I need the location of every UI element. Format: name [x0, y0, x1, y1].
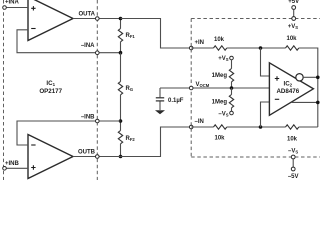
- op-amp IC2 AD8476: [269, 63, 313, 116]
- junction -IN stub: [259, 125, 263, 129]
- wire -IN stub into amp: [261, 102, 270, 127]
- node -IN terminal: [189, 125, 193, 129]
- svg-text:AD8476: AD8476: [276, 88, 299, 95]
- node OUTB terminal: [96, 155, 100, 159]
- svg-text:10k: 10k: [287, 36, 298, 42]
- svg-text:–INA: –INA: [81, 43, 95, 49]
- svg-text:–5V: –5V: [288, 174, 299, 180]
- resistor RF2: [118, 121, 135, 157]
- resistor 10k (+IN series): [214, 37, 227, 50]
- supply +5V terminal: [288, 0, 299, 20]
- junction VOCM divider tap: [230, 86, 234, 90]
- svg-text:+VS: +VS: [218, 56, 229, 62]
- wire OUTB to -IN of AD8476: [121, 127, 192, 157]
- svg-text:–INB: –INB: [81, 114, 95, 120]
- supply -5V terminal: [288, 155, 299, 180]
- wire bottom feedback to output node: [299, 126, 318, 128]
- wire +OUT: [291, 101, 318, 103]
- node -Vs divider terminal: [230, 111, 234, 115]
- wire 10k to bottom feedback: [227, 126, 286, 128]
- capacitor 0.1uF on VOCM: [156, 88, 184, 110]
- op-amp U1B (OP2177 B): [28, 135, 73, 179]
- svg-text:RG: RG: [126, 86, 134, 92]
- junction -INA/RF1/RG: [119, 51, 123, 55]
- svg-text:RF2: RF2: [126, 136, 136, 142]
- resistor 10k (-IN series): [214, 125, 227, 142]
- IC2 AD8476 package boundary (dashed): [191, 19, 320, 158]
- IC1 OP2177 package boundary (dashed): [4, 0, 98, 180]
- wire OUTA to +IN of AD8476: [121, 19, 192, 49]
- IC1 value label: [39, 80, 62, 95]
- node +INA terminal: [3, 6, 7, 10]
- svg-text:1Meg: 1Meg: [212, 73, 228, 79]
- wire OUTB from op-amp B apex: [73, 156, 161, 158]
- resistor 1Meg lower: [212, 88, 234, 111]
- wire 10k to feedback node: [227, 47, 286, 49]
- resistor 10k (bottom feedback): [286, 125, 299, 143]
- resistor 10k (top feedback): [286, 36, 299, 50]
- node +INB terminal: [3, 167, 7, 171]
- op-amp U1A (OP2177 A): [28, 0, 73, 41]
- junction -OUT node: [316, 76, 320, 80]
- wire -OUT: [303, 76, 318, 78]
- svg-text:1Meg: 1Meg: [212, 100, 228, 106]
- ground: [155, 110, 165, 114]
- svg-text:+INA: +INA: [5, 0, 20, 6]
- resistor 1Meg upper: [212, 60, 234, 88]
- svg-text:IC1: IC1: [46, 80, 55, 87]
- svg-text:IC2: IC2: [283, 81, 292, 88]
- junction +OUT node: [316, 101, 320, 105]
- wire op-amp B feedback to -INB: [17, 121, 121, 145]
- node VOCM terminal: [189, 86, 193, 90]
- svg-text:–VS: –VS: [288, 149, 298, 155]
- wire feedback top to output node: [299, 48, 318, 127]
- svg-text:OUTB: OUTB: [78, 150, 96, 156]
- svg-text:10k: 10k: [214, 37, 225, 43]
- wire OUTA from op-amp A apex to corner: [73, 18, 161, 20]
- svg-text:0.1µF: 0.1µF: [168, 98, 184, 104]
- wire +IN stub into amp: [261, 48, 270, 76]
- wire +IN to AD8476 plus feedback rail: [191, 47, 213, 49]
- svg-text:OUTA: OUTA: [78, 12, 95, 18]
- svg-text:–IN: –IN: [195, 119, 204, 125]
- svg-text:VOCM: VOCM: [196, 82, 210, 88]
- resistor RG: [118, 53, 133, 121]
- node -INA terminal: [96, 51, 100, 55]
- wire -IN series rail: [191, 126, 213, 128]
- node -INB terminal: [96, 119, 100, 123]
- svg-text:+INB: +INB: [5, 161, 20, 167]
- node OUTA terminal: [96, 17, 100, 21]
- junction OUTB/RF2: [119, 155, 123, 159]
- wire +INB input: [6, 167, 28, 169]
- wire op-amp A feedback to -INA: [17, 30, 121, 53]
- node +Vs divider terminal: [230, 56, 234, 60]
- inverting output bubble: [296, 74, 303, 81]
- svg-text:+VS: +VS: [288, 24, 299, 30]
- svg-text:+5V: +5V: [288, 0, 299, 5]
- svg-text:+IN: +IN: [195, 40, 205, 46]
- junction -INB/RG/RF2: [119, 119, 123, 123]
- svg-text:–VS: –VS: [218, 112, 228, 118]
- node +IN terminal: [189, 46, 193, 50]
- svg-text:10k: 10k: [287, 137, 298, 143]
- svg-text:RF1: RF1: [126, 33, 136, 39]
- junction +IN stub: [259, 46, 263, 50]
- wire VOCM: [160, 87, 269, 89]
- wire +INA input: [6, 7, 28, 9]
- svg-text:OP2177: OP2177: [39, 88, 62, 95]
- resistor RF1: [118, 19, 135, 53]
- junction OUTA/RF1: [119, 17, 123, 21]
- svg-text:10k: 10k: [215, 136, 226, 142]
